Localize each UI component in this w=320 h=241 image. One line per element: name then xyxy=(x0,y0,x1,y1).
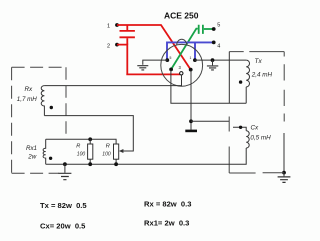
svg-text:100: 100 xyxy=(77,152,86,158)
svg-text:Tx = 82w 0.5: Tx = 82w 0.5 xyxy=(40,201,87,210)
Cx dashed box bottom xyxy=(229,172,284,174)
dashed box around Rx and Rx1 xyxy=(12,66,66,68)
junction dot on G3 wire xyxy=(189,119,193,123)
svg-text:2w: 2w xyxy=(27,153,36,160)
DIN connector U1 circle xyxy=(161,44,203,86)
svg-text:2,4 mH: 2,4 mH xyxy=(251,72,273,79)
capacitor C red stub bottom xyxy=(126,38,128,44)
wire left pin to ground G1 xyxy=(143,60,168,65)
DIN connector key notch xyxy=(177,39,187,45)
inductor Tx coil xyxy=(246,60,249,87)
dashed box right edge xyxy=(65,67,67,139)
junction dot R1 bottom xyxy=(88,162,92,166)
Rx1 phasing dot xyxy=(49,157,52,160)
svg-text:5: 5 xyxy=(170,56,172,60)
pot wiper arrowhead xyxy=(119,149,124,153)
Tx phasing dot xyxy=(239,80,242,83)
wire red from node2 down and right to DIN pin 3 xyxy=(117,44,180,75)
node 5 terminal dot xyxy=(212,27,216,31)
resistor R2 stub bottom xyxy=(115,159,117,164)
capacitor C red stub top xyxy=(126,25,128,30)
svg-text:1,7 mH: 1,7 mH xyxy=(17,96,37,103)
Tx dashed box right edge xyxy=(283,52,285,122)
wire pin3 riser down-left to Rx top rail xyxy=(44,75,181,86)
DIN pin left (dot) xyxy=(165,58,169,62)
svg-text:1: 1 xyxy=(107,24,110,30)
DIN pin 3 center ring xyxy=(180,72,183,75)
svg-text:ACE 250: ACE 250 xyxy=(164,11,199,21)
ground G2 xyxy=(207,66,218,70)
ground G5 stem xyxy=(283,173,285,177)
resistor R1 stub bottom xyxy=(89,159,91,164)
wire bottom rail to Cx bottom xyxy=(46,148,247,164)
wire Tx left vertical xyxy=(228,52,230,104)
junction dot R1 top xyxy=(88,137,92,141)
wire Rx bottom rail to pot wiper xyxy=(44,116,133,151)
ground G5 xyxy=(278,177,291,183)
wire Rx1 top rail to resistors xyxy=(46,139,116,144)
node 4 terminal dot xyxy=(212,41,216,45)
junction dot R2 bottom xyxy=(114,162,118,166)
svg-text:Tx: Tx xyxy=(255,58,263,65)
wire junction to Cx box edge xyxy=(191,120,229,122)
dashed box left edge xyxy=(11,67,13,173)
DIN pin bottom-right (dot) xyxy=(189,68,193,72)
wire bottom-left pin down and right to Tx bottom xyxy=(171,70,246,103)
inductor Rx1 coil xyxy=(43,139,46,164)
capacitor C red plates xyxy=(120,31,135,37)
svg-text:R: R xyxy=(76,144,80,150)
capacitor green lead right to node 5 xyxy=(204,28,214,30)
capacitor green plates xyxy=(199,25,203,34)
svg-text:Rx1= 2w 0.3: Rx1= 2w 0.3 xyxy=(144,219,189,228)
svg-text:Rx: Rx xyxy=(25,86,34,93)
svg-text:Cx= 20w 0.5: Cx= 20w 0.5 xyxy=(40,222,86,231)
wire Tx coil bottom riser xyxy=(245,87,247,103)
ground G2 stem xyxy=(212,60,214,65)
Cx phasing dot xyxy=(239,126,242,129)
ground G1 xyxy=(137,66,148,70)
inductor Rx coil xyxy=(41,86,44,116)
svg-text:Rx1: Rx1 xyxy=(26,145,37,152)
inductor Cx coil xyxy=(246,131,249,148)
ground G4 stem xyxy=(64,164,66,173)
svg-text:5: 5 xyxy=(217,23,220,29)
wire right edge to ground G5 xyxy=(283,133,285,173)
junction dot G5 node xyxy=(282,171,286,175)
wire right pin to Tx coil top xyxy=(195,59,246,61)
DIN pin right (dot) xyxy=(193,58,197,62)
ground G4 xyxy=(58,173,71,179)
DIN pin bottom-left (dot) xyxy=(169,68,173,72)
node 2 terminal dot xyxy=(115,43,119,47)
resistor R1 stub top xyxy=(89,139,91,144)
svg-text:Rx = 82w 0.3: Rx = 82w 0.3 xyxy=(144,200,192,209)
ground G3 bar xyxy=(185,130,197,133)
Rx phasing dot xyxy=(50,106,53,109)
svg-text:4: 4 xyxy=(217,44,220,50)
wire blue from DIN top pins to node 4 xyxy=(167,42,214,59)
svg-text:Cx: Cx xyxy=(251,125,260,132)
capacitor green lead left diagonal from DIN pin to plate xyxy=(171,29,198,69)
svg-text:1: 1 xyxy=(190,56,192,60)
wire bottom-right pin down to ground G3 xyxy=(190,71,192,130)
resistor R2 body (pot) xyxy=(114,144,119,159)
wire Cx top lead xyxy=(233,127,246,131)
node 1 terminal dot xyxy=(115,23,119,27)
junction dot G4 node xyxy=(63,162,67,166)
resistor R1 body xyxy=(88,144,93,159)
wire red from node1 to DIN pin bottom-right (diagonal) xyxy=(117,25,191,69)
svg-text:100: 100 xyxy=(102,152,111,158)
Cx dashed box left edge xyxy=(228,117,230,174)
junction dot G2 node xyxy=(211,58,215,62)
svg-text:0,5 mH: 0,5 mH xyxy=(250,135,271,142)
svg-text:R: R xyxy=(106,144,110,150)
svg-text:2: 2 xyxy=(107,44,110,50)
Tx dashed box top xyxy=(229,51,284,53)
dashed box bottom edge xyxy=(12,172,59,174)
